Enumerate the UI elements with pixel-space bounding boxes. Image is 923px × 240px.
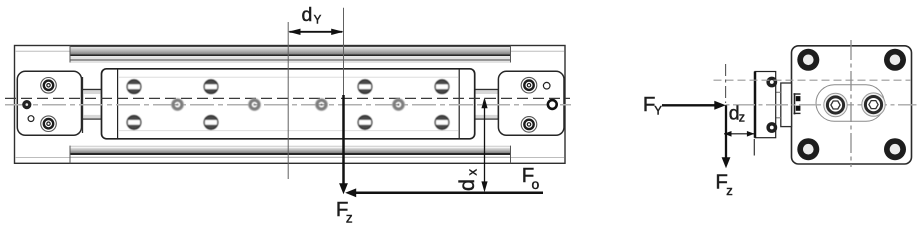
svg-text:z: z <box>739 111 745 125</box>
svg-text:Y: Y <box>314 14 322 26</box>
svg-text:d: d <box>455 179 479 191</box>
svg-text:o: o <box>532 176 540 192</box>
svg-text:d: d <box>302 4 313 26</box>
svg-text:z: z <box>726 183 733 198</box>
svg-text:z: z <box>346 211 353 226</box>
svg-text:x: x <box>465 169 480 176</box>
svg-text:Y: Y <box>654 105 662 117</box>
